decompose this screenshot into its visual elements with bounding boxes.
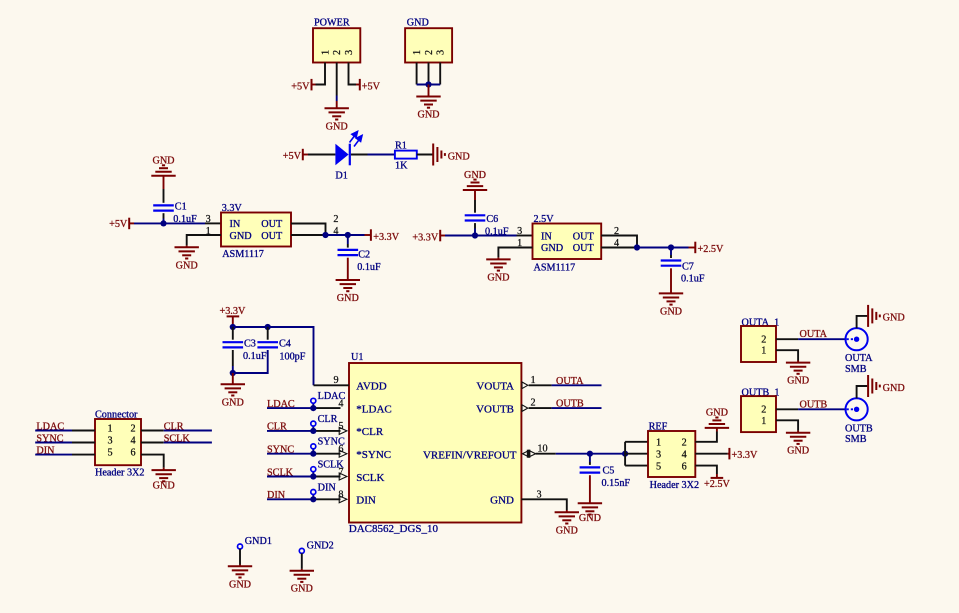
wire	[440, 235, 445, 237]
pin 1 lead	[776, 350, 798, 360]
svg-text:6: 6	[130, 447, 135, 458]
connector POWER body	[313, 28, 360, 62]
svg-text:C4: C4	[279, 338, 291, 349]
U1 bidirectional arrow VREFIN	[522, 450, 535, 458]
stub to net marker	[312, 494, 314, 499]
LED D1 emission arrows	[350, 132, 363, 147]
svg-text:C6: C6	[486, 214, 498, 225]
svg-text:OUT: OUT	[261, 231, 283, 242]
Connector pin lead	[141, 430, 164, 432]
wire	[336, 96, 338, 102]
U1 output arrow	[522, 382, 528, 389]
test point GND2	[299, 548, 304, 553]
svg-text:VOUTB: VOUTB	[476, 403, 514, 415]
wire LDAC	[267, 407, 313, 409]
wire CLR	[267, 430, 313, 432]
U1 input arrow SYNC	[339, 450, 347, 457]
ground above C1	[151, 156, 175, 176]
net marker circle LDAC	[311, 398, 316, 403]
U1 pin 2 lead	[529, 407, 552, 409]
wire to ground	[336, 101, 338, 108]
ground below GND1	[228, 566, 252, 590]
svg-text:GND: GND	[464, 170, 486, 181]
svg-text:4: 4	[130, 435, 135, 446]
pin 2 lead	[776, 338, 798, 340]
wire to ground	[163, 468, 165, 470]
wire CLR	[164, 430, 212, 432]
svg-text:6: 6	[682, 462, 687, 473]
svg-text:OUT: OUT	[261, 219, 283, 230]
svg-text:OUTA: OUTA	[800, 329, 828, 340]
svg-text:2: 2	[761, 405, 766, 416]
stub to net marker	[312, 426, 314, 431]
Connector pin lead	[72, 442, 95, 444]
wire SYNC	[267, 453, 313, 455]
wire	[474, 190, 476, 200]
svg-text:+5V: +5V	[291, 82, 310, 93]
U1 input arrow SCLK	[339, 473, 347, 480]
C5 upper lead	[589, 462, 591, 465]
junction	[634, 244, 640, 250]
wire to +2.5V tap	[689, 247, 696, 249]
U1 pin 3 lead	[521, 499, 566, 510]
wire SYNC	[35, 442, 72, 444]
power port +3.3V bar	[439, 230, 441, 242]
svg-text:*SYNC: *SYNC	[356, 449, 391, 461]
U1 pin 9 lead	[314, 384, 350, 386]
wire +2.5V rail	[637, 247, 671, 249]
svg-text:1: 1	[530, 375, 535, 386]
wire to ground	[301, 569, 303, 571]
ground below U1 pin 3	[555, 512, 579, 536]
junction	[310, 496, 316, 502]
svg-text:*LDAC: *LDAC	[356, 403, 391, 415]
svg-text:GND: GND	[787, 446, 809, 457]
SMB shell stub	[857, 316, 868, 328]
svg-text:3: 3	[517, 226, 522, 237]
wire	[474, 229, 476, 236]
junction	[622, 451, 628, 457]
LED D1	[335, 144, 348, 166]
svg-text:ASM1117: ASM1117	[534, 263, 576, 274]
wire OUTA	[798, 338, 845, 340]
svg-text:GND: GND	[291, 584, 313, 595]
svg-text:DAC8562_DGS_10: DAC8562_DGS_10	[349, 523, 439, 535]
net marker circle CLR	[311, 421, 316, 426]
POWER pin 1 lead	[316, 63, 326, 85]
junction	[310, 473, 316, 479]
wire	[301, 553, 303, 569]
svg-text:U1: U1	[351, 352, 363, 363]
svg-text:Header 3X2: Header 3X2	[95, 468, 145, 479]
wire to ground	[670, 268, 672, 293]
ground below GND header	[416, 97, 440, 121]
Connector pin lead	[72, 454, 95, 456]
REF pin 6 lead	[695, 466, 717, 474]
wire to ground	[232, 373, 234, 384]
junction	[265, 324, 271, 330]
svg-text:OUTA: OUTA	[556, 376, 584, 387]
svg-text:5: 5	[338, 421, 343, 432]
svg-text:OUT: OUT	[573, 231, 595, 242]
POWER pin 3 lead	[349, 63, 357, 85]
wire VREF to REF header	[590, 453, 625, 455]
svg-text:SCLK: SCLK	[164, 433, 191, 444]
wire LDAC	[35, 430, 72, 432]
junction	[668, 244, 674, 250]
junction	[322, 232, 328, 238]
test point GND1	[238, 544, 243, 549]
junction	[345, 232, 351, 238]
ground below C2	[336, 280, 360, 304]
wire	[671, 247, 689, 249]
stub to net marker	[312, 449, 314, 454]
C2 upper lead	[347, 244, 349, 248]
svg-text:1: 1	[761, 346, 766, 357]
svg-text:3: 3	[656, 450, 661, 461]
svg-text:GND: GND	[706, 408, 728, 419]
ground (rotated) at SMB OUTB	[868, 375, 905, 397]
svg-text:C7: C7	[682, 261, 694, 272]
capacitor C3	[223, 342, 244, 347]
wire to C7	[670, 248, 672, 256]
wire	[163, 219, 165, 224]
svg-text:GND: GND	[229, 579, 251, 590]
wire OUTA	[552, 384, 602, 386]
U2 pin 1 lead	[187, 235, 221, 245]
ground below POWER pin 2	[325, 108, 349, 132]
svg-text:GND: GND	[337, 293, 359, 304]
svg-text:GND: GND	[660, 306, 682, 317]
svg-text:C3: C3	[244, 338, 256, 349]
U2 pin 4 lead	[291, 234, 326, 236]
ground below C5	[578, 503, 602, 514]
svg-text:1: 1	[107, 423, 112, 434]
svg-text:3: 3	[344, 50, 355, 55]
svg-text:CLR: CLR	[318, 414, 338, 425]
C3 lower lead	[232, 350, 234, 366]
SMB connector OUTB	[846, 398, 868, 420]
wire	[239, 549, 241, 565]
wire to +5V tap	[356, 84, 360, 86]
svg-text:3: 3	[536, 490, 541, 501]
svg-text:OUTB: OUTB	[845, 423, 873, 434]
svg-text:7: 7	[338, 467, 343, 478]
svg-text:GND: GND	[490, 495, 514, 507]
wire to ground	[239, 565, 241, 567]
U1 pin 8 lead	[313, 498, 340, 500]
svg-text:Header 3X2: Header 3X2	[650, 480, 700, 491]
svg-text:OUTB: OUTB	[556, 399, 584, 410]
C3 upper lead	[232, 327, 234, 340]
svg-text:SMB: SMB	[845, 434, 867, 445]
wire	[348, 234, 365, 236]
svg-text:D1: D1	[335, 171, 347, 182]
SMB connector OUTA	[846, 328, 868, 350]
svg-text:SCLK: SCLK	[356, 472, 384, 484]
svg-text:+3.3V: +3.3V	[732, 450, 758, 461]
pin 1 lead	[776, 420, 798, 430]
svg-text:OUTB: OUTB	[800, 399, 828, 410]
svg-text:3: 3	[206, 214, 211, 225]
ground below Connector pin 6	[152, 470, 176, 492]
wire to ground	[347, 258, 349, 280]
svg-text:1: 1	[320, 50, 331, 55]
svg-text:GND: GND	[487, 272, 509, 283]
svg-text:10: 10	[537, 444, 547, 455]
ground below OUTB_1 pin 1	[786, 433, 810, 457]
power port +5V bar	[302, 149, 304, 161]
U3 pin 1 lead	[498, 248, 532, 258]
REF pin 5 lead	[625, 465, 648, 467]
svg-text:ASM1117: ASM1117	[222, 249, 264, 260]
GND hdr pin 1 lead	[416, 63, 418, 85]
svg-text:*CLR: *CLR	[356, 426, 384, 438]
wire to regulator	[445, 235, 517, 237]
svg-text:100pF: 100pF	[279, 351, 305, 362]
junction	[310, 428, 316, 434]
svg-text:GND: GND	[541, 243, 563, 254]
wire to LED anode	[308, 154, 335, 156]
svg-text:2: 2	[333, 214, 338, 225]
power port +5V (right) bar	[359, 79, 361, 91]
svg-text:+3.3V: +3.3V	[373, 232, 399, 243]
svg-text:GND: GND	[222, 397, 244, 408]
U1 input arrow DIN	[339, 496, 347, 503]
U1 input arrow CLR	[339, 427, 347, 434]
junction	[160, 220, 166, 226]
Connector pin lead	[141, 442, 164, 444]
svg-text:OUTA: OUTA	[845, 353, 873, 364]
wire	[728, 453, 730, 455]
wire to C5	[589, 454, 591, 462]
svg-text:DIN: DIN	[356, 495, 376, 507]
header OUTB_1 body	[741, 396, 776, 432]
wire to ground	[589, 475, 591, 503]
ground below U3 pin 1	[486, 259, 510, 283]
ground below OUTA_1 pin 1	[786, 363, 810, 387]
svg-text:R1: R1	[395, 141, 407, 152]
svg-text:GND: GND	[579, 513, 601, 524]
GND hdr pin 2 lead	[428, 63, 430, 85]
svg-text:4: 4	[682, 450, 687, 461]
stub to net marker	[312, 472, 314, 477]
U3 pin 3 lead	[517, 235, 533, 237]
header OUTA_1 body	[741, 326, 776, 362]
U1 pin 6 lead	[313, 453, 340, 455]
ground below C3	[221, 384, 245, 408]
svg-text:6: 6	[338, 444, 343, 455]
svg-text:2: 2	[761, 335, 766, 346]
power port +3.3V bar	[728, 448, 730, 460]
svg-text:9: 9	[333, 375, 338, 386]
wire to +2.5V tap	[716, 474, 718, 478]
svg-text:GND: GND	[787, 376, 809, 387]
svg-text:8: 8	[338, 490, 343, 501]
header Connector body	[95, 419, 141, 465]
wire joining pins	[417, 84, 441, 86]
wire SCLK	[164, 442, 212, 444]
wire LED cathode	[351, 154, 368, 156]
svg-text:C5: C5	[603, 465, 615, 476]
svg-text:+2.5V: +2.5V	[698, 244, 724, 255]
REF pin 4 lead	[695, 453, 727, 455]
svg-text:+5V: +5V	[109, 219, 128, 230]
IC U1 DAC8562 body	[349, 363, 521, 523]
U2 pin 2 lead	[291, 224, 326, 236]
wire OUTB	[798, 408, 845, 410]
svg-text:0.1uF: 0.1uF	[681, 274, 705, 285]
wire to C6	[474, 200, 476, 213]
U1 pin 5 lead	[313, 430, 340, 432]
svg-text:1: 1	[761, 416, 766, 427]
svg-text:GND: GND	[326, 121, 348, 132]
wire to ground	[797, 431, 799, 433]
ground (rotated) at SMB OUTA	[868, 305, 905, 327]
svg-text:3: 3	[107, 435, 112, 446]
SMB shell stub	[857, 386, 868, 398]
svg-text:1: 1	[412, 50, 423, 55]
net marker circle SCLK	[311, 467, 316, 472]
junction	[230, 370, 236, 376]
svg-text:4: 4	[338, 398, 343, 409]
U1 output arrow	[522, 405, 528, 412]
wire to +5V tap	[312, 84, 316, 86]
junction	[587, 451, 593, 457]
wire	[163, 176, 165, 189]
C7 upper lead	[670, 255, 672, 258]
power port +2.5V bar	[711, 477, 724, 479]
svg-text:SMB: SMB	[845, 364, 867, 375]
wire to R1	[368, 154, 395, 156]
svg-text:GND: GND	[153, 481, 175, 492]
U1 pin 4 lead	[313, 407, 340, 409]
U1 pin 1 lead	[529, 384, 552, 386]
wire to C2	[347, 235, 349, 244]
wire DIN	[35, 454, 72, 456]
svg-text:VREFIN/VREFOUT: VREFIN/VREFOUT	[423, 449, 517, 461]
wire OUTB	[552, 407, 602, 409]
svg-text:AVDD: AVDD	[356, 381, 386, 393]
REF pin 2 lead	[695, 432, 717, 442]
ground above C6	[463, 170, 487, 190]
wire	[303, 154, 308, 156]
svg-text:GND: GND	[417, 110, 439, 121]
pin 2 lead	[776, 408, 798, 410]
svg-text:2: 2	[424, 50, 435, 55]
C6 lower lead	[474, 223, 476, 228]
connector GND body	[405, 28, 452, 62]
svg-text:2: 2	[682, 438, 687, 449]
svg-text:2: 2	[130, 423, 135, 434]
wire +3.3V rail	[326, 234, 348, 236]
stub to net marker	[312, 403, 314, 408]
svg-text:GND: GND	[556, 525, 578, 536]
wire to ground	[186, 245, 188, 247]
svg-text:GND: GND	[448, 151, 470, 162]
wire to U1 AVDD	[268, 327, 314, 385]
svg-text:+2.5V: +2.5V	[704, 479, 730, 490]
junction	[425, 81, 431, 87]
wire	[232, 366, 234, 373]
capacitor C4	[257, 342, 278, 347]
svg-text:0.1uF: 0.1uF	[357, 262, 381, 273]
capacitor C5	[580, 467, 601, 472]
svg-text:+5V: +5V	[283, 151, 302, 162]
Connector pin lead	[72, 430, 95, 432]
resistor R1	[395, 151, 417, 159]
C1 lower lead	[163, 213, 165, 218]
svg-text:GND: GND	[152, 156, 174, 167]
U2 pin 3 lead	[205, 222, 221, 224]
wire bus joining REF pins 1,3,5	[624, 442, 626, 466]
svg-text:2: 2	[530, 398, 535, 409]
wire to ground	[716, 428, 718, 432]
U1 pin 10 lead	[536, 453, 556, 455]
svg-text:+3.3V: +3.3V	[412, 233, 438, 244]
svg-text:C1: C1	[175, 201, 187, 212]
svg-text:0.1uF: 0.1uF	[243, 351, 267, 362]
svg-text:GND1: GND1	[245, 536, 272, 547]
svg-text:1K: 1K	[395, 160, 408, 171]
power port +3.3V bar	[370, 229, 372, 241]
svg-text:IN: IN	[230, 219, 241, 230]
power port +5V (left) bar	[311, 79, 313, 91]
voltage regulator U3 ASM1117 body	[533, 224, 602, 260]
wire VREF	[556, 453, 590, 455]
POWER pin 2 lead	[336, 63, 338, 96]
svg-text:GND: GND	[883, 313, 905, 324]
GND hdr pin 3 lead	[439, 63, 441, 85]
U1 pin 7 lead	[313, 476, 340, 478]
U3 pin 4 lead	[601, 247, 637, 249]
svg-text:VOUTA: VOUTA	[476, 381, 514, 393]
capacitor C1	[153, 205, 174, 210]
Connector pin 6 lead	[141, 455, 164, 468]
svg-text:0.15nF: 0.15nF	[602, 478, 631, 489]
ground (rotated) after R1	[433, 144, 470, 166]
wire to ground	[797, 361, 799, 363]
power port +2.5V bar	[694, 242, 696, 254]
header REF body	[648, 431, 695, 477]
svg-text:OUT: OUT	[573, 243, 595, 254]
wire to ground	[428, 85, 430, 97]
capacitor C2	[338, 250, 359, 255]
wire	[233, 326, 268, 328]
capacitor C6	[465, 215, 486, 220]
U3 pin 2 lead	[601, 236, 637, 248]
wire +5V to regulator	[134, 222, 205, 224]
svg-text:5: 5	[107, 447, 112, 458]
junction	[472, 232, 478, 238]
wire DIN	[267, 498, 313, 500]
svg-text:CLR: CLR	[164, 421, 184, 432]
wire to ground	[497, 257, 499, 259]
wire from +3.3V	[232, 316, 234, 327]
svg-text:GND2: GND2	[307, 541, 334, 552]
svg-text:DIN: DIN	[318, 482, 337, 493]
svg-text:IN: IN	[541, 231, 552, 242]
svg-text:GND: GND	[230, 231, 252, 242]
voltage regulator U2 ASM1117 body	[221, 213, 291, 247]
power port +5V bar	[128, 218, 130, 230]
svg-text:GND: GND	[176, 260, 198, 271]
wire to ground	[566, 510, 568, 512]
REF pin 1 lead	[625, 441, 648, 443]
wire SCLK	[267, 476, 313, 478]
C4 lower lead wire	[233, 350, 268, 373]
ground above REF pin 2	[705, 408, 729, 428]
